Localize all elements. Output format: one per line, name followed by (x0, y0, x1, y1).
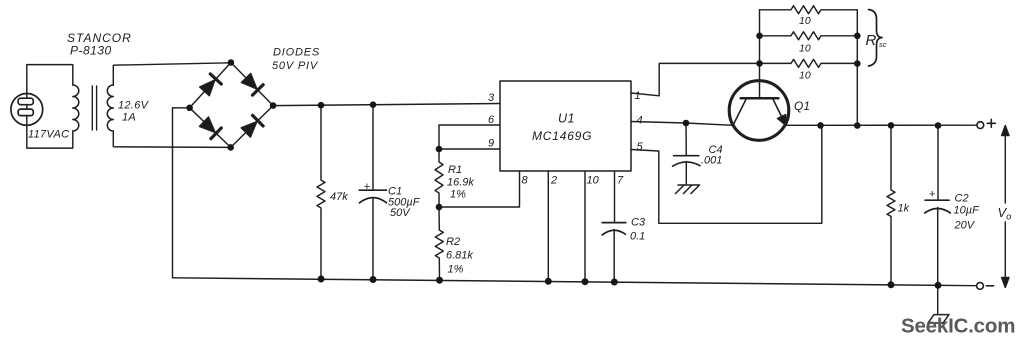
junction bridge positive node (270, 102, 277, 109)
svg-text:1A: 1A (122, 112, 136, 124)
junction 1k top on output line (888, 122, 895, 129)
svg-text:117VAC: 117VAC (28, 129, 69, 141)
svg-text:10µF: 10µF (954, 205, 981, 217)
junction 1k bottom on ground rail (888, 281, 895, 288)
svg-text:16.9k: 16.9k (447, 177, 474, 189)
junction Rsc row3 right (854, 60, 861, 67)
svg-text:50V PIV: 50V PIV (272, 60, 319, 72)
svg-text:50V: 50V (390, 207, 411, 219)
junction Rsc riser on output line (854, 122, 861, 129)
junction Rsc row3 left / Q1 collector (756, 60, 763, 67)
U1 box MC1469G (500, 81, 631, 171)
junction R2 bottom on ground rail (436, 277, 443, 284)
svg-text:R1: R1 (448, 164, 462, 176)
diode bridge arm bottom-left (190, 108, 231, 148)
junction Rsc row2 right (854, 33, 861, 40)
svg-text:12.6V: 12.6V (118, 100, 150, 112)
diode D1 (left to top) (199, 74, 221, 97)
svg-text:1%: 1% (448, 264, 464, 276)
plug 117VAC receptacle (11, 94, 43, 126)
svg-text:R2: R2 (446, 236, 460, 248)
svg-text:+: + (929, 189, 935, 201)
wire U1 pin 1 to Rsc left node (631, 63, 760, 95)
junction C4 top on pin 4 wire (683, 120, 690, 127)
wire secondary top to bridge top (113, 63, 231, 85)
ground rail (bottom) (173, 278, 977, 286)
transistor Q1 (729, 10, 789, 140)
brace for Rsc (869, 10, 883, 67)
svg-text:Q1: Q1 (794, 99, 810, 113)
transformer T1 primary winding (73, 85, 79, 131)
svg-text:1: 1 (635, 90, 641, 102)
svg-text:U1: U1 (558, 112, 575, 126)
diode D4 (bottom to right) (241, 115, 263, 137)
svg-text:1k: 1k (898, 203, 910, 215)
svg-text:8: 8 (522, 175, 529, 187)
wire U1 pin 9 (439, 148, 500, 150)
transformer T1 secondary winding (107, 85, 113, 131)
chassis ground symbol (928, 315, 949, 323)
svg-text:10: 10 (587, 175, 600, 187)
junction pin 2 on ground rail (545, 278, 552, 285)
svg-text:0.1: 0.1 (630, 231, 645, 243)
resistor Rsc row 3 (10 ohm) (760, 59, 858, 67)
svg-text:1%: 1% (450, 189, 466, 201)
svg-text:+: + (364, 181, 370, 193)
svg-text:3: 3 (488, 92, 495, 104)
wire Rsc right riser to output line (856, 10, 858, 126)
svg-text:47k: 47k (330, 191, 348, 203)
plus sign at output (987, 119, 995, 127)
wire U1 pin 8 to R1 bottom (439, 171, 520, 207)
junction bridge negative node (186, 105, 193, 112)
svg-text:.001: .001 (701, 155, 722, 167)
resistor 47k (317, 105, 325, 279)
diode bridge arm top-left (190, 63, 231, 108)
svg-text:7: 7 (617, 175, 624, 187)
wire U1 pin 5 sense path (631, 125, 822, 223)
resistor Rsc row 1 (10 ohm) (760, 6, 858, 14)
wire plug top to primary (27, 65, 73, 94)
wire U1 pin 6 (439, 125, 500, 149)
junction Rsc row2 left (756, 33, 763, 40)
minus sign at output (987, 285, 994, 287)
capacitor C2 10uF (925, 126, 951, 286)
resistor R1 16.9k (435, 149, 443, 207)
transformer T1 core (92, 86, 96, 130)
wire U1 pin 2 to ground rail (547, 171, 549, 281)
junction bridge AC bottom node (227, 144, 234, 151)
junction C1 top on positive rail (370, 101, 377, 108)
svg-text:10: 10 (799, 15, 811, 27)
output terminal + (977, 122, 984, 129)
svg-text:MC1469G: MC1469G (532, 129, 592, 143)
svg-text:5: 5 (637, 141, 644, 153)
capacitor C4 .001 (673, 123, 700, 185)
junction bridge AC top node (228, 59, 235, 66)
wire secondary bottom to bridge bottom (113, 131, 230, 147)
svg-text:Vo: Vo (998, 205, 1012, 223)
junction R1 top / pins 6,9 (436, 146, 443, 153)
svg-text:DIODES: DIODES (273, 46, 320, 58)
svg-text:P-8130: P-8130 (70, 44, 112, 58)
svg-text:C3: C3 (631, 217, 646, 229)
wire bridge left node down to bottom rail (173, 108, 190, 278)
wire C2 bottom to chassis ground (937, 285, 939, 314)
svg-text:4: 4 (637, 115, 643, 127)
wire U1 pin 10 to ground rail (584, 171, 586, 282)
capacitor C3 0.1 (602, 223, 626, 282)
svg-text:SeekIC.com: SeekIC.com (901, 315, 1015, 338)
ground symbol for C4 (676, 185, 700, 194)
junction 47k bottom on ground rail (318, 276, 325, 283)
junction pin 10 on ground rail (582, 278, 589, 285)
diode bridge arm bottom-right (231, 106, 273, 148)
wire plug bottom to primary (27, 125, 73, 148)
svg-text:10: 10 (799, 70, 811, 82)
svg-text:C2: C2 (955, 193, 969, 205)
diode D3 (left to bottom) (199, 116, 222, 138)
svg-text:6.81k: 6.81k (446, 250, 473, 262)
junction R1-R2 / pin 8 (436, 204, 443, 211)
capacitor C1 500uF (359, 105, 386, 280)
svg-text:10: 10 (799, 43, 811, 55)
Vo arrow (double headed) (1002, 126, 1009, 288)
wire U1 pin 4 to Q1 base lead (631, 122, 733, 126)
wire U1 pin 7 to C3 (614, 171, 616, 223)
svg-text:9: 9 (488, 138, 494, 150)
svg-text:20V: 20V (954, 220, 976, 232)
junction C3 bottom on ground rail (611, 279, 618, 286)
svg-text:6: 6 (488, 114, 495, 126)
resistor R2 6.81k (435, 207, 443, 280)
wire positive rail to U1 pin 3 (273, 104, 500, 106)
output terminal - (977, 283, 984, 290)
junction C1 bottom on ground rail (370, 276, 377, 283)
junction 47k top on positive rail (318, 102, 325, 109)
resistor 1k (887, 125, 895, 284)
wire Q1 emitter to + output terminal (786, 124, 977, 126)
svg-text:2: 2 (550, 175, 557, 187)
junction pin 5 sense on output line (817, 122, 824, 129)
junction C2 bottom on ground rail (935, 282, 942, 289)
resistor Rsc row 2 (10 ohm) (760, 32, 858, 40)
junction C2 top on output line (935, 122, 942, 129)
svg-text:Rsc: Rsc (866, 32, 887, 49)
diode bridge arm top-right (231, 63, 273, 106)
diode D2 (top to right) (241, 73, 263, 95)
